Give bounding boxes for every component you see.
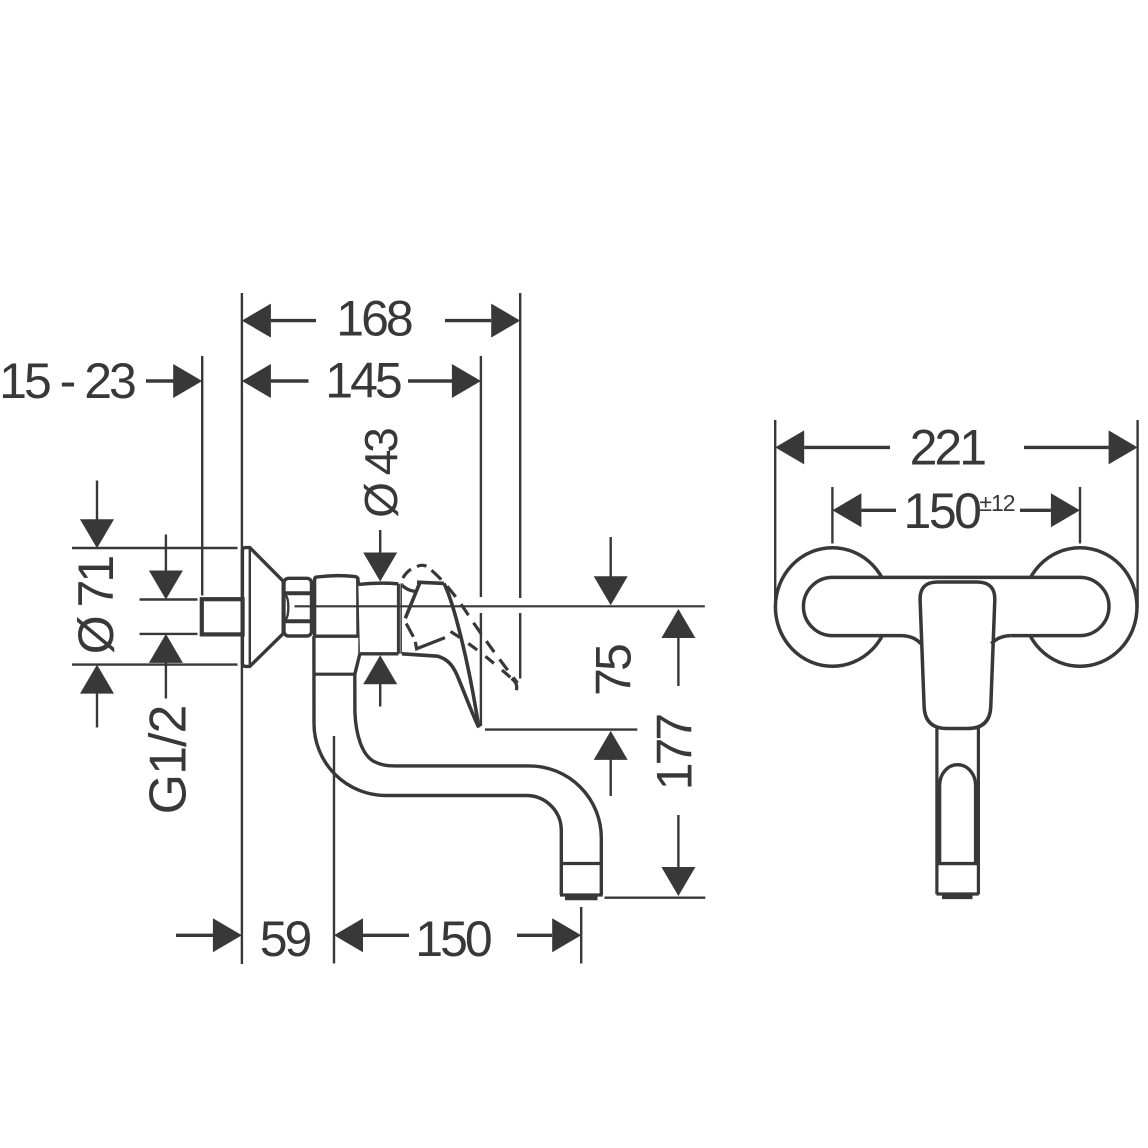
svg-text:221: 221 — [910, 420, 986, 476]
svg-text:59: 59 — [260, 911, 311, 967]
svg-text:75: 75 — [585, 645, 641, 696]
svg-text:15 - 23: 15 - 23 — [0, 353, 135, 409]
svg-text:145: 145 — [325, 352, 401, 408]
svg-text:177: 177 — [646, 715, 702, 791]
svg-text:Ø 43: Ø 43 — [355, 429, 407, 518]
svg-text:168: 168 — [336, 291, 412, 347]
svg-text:Ø 71: Ø 71 — [68, 557, 124, 655]
svg-text:G1/2: G1/2 — [140, 706, 198, 815]
svg-text:150: 150 — [415, 911, 491, 967]
svg-text:±12: ±12 — [979, 490, 1014, 516]
svg-text:150: 150 — [904, 483, 981, 539]
